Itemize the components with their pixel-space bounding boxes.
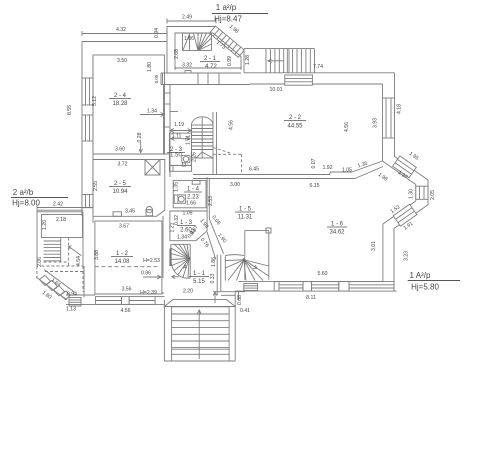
- dashed ceiling line 1-2: [95, 266, 160, 268]
- corridor diagonal walls: [207, 219, 224, 260]
- SW block inner wall to 1-2: [84, 216, 93, 298]
- spiral stair wall post: [169, 249, 171, 267]
- svg-text:1.73: 1.73: [215, 40, 227, 51]
- svg-text:4.56: 4.56: [120, 308, 130, 314]
- svg-text:1.80: 1.80: [41, 290, 53, 301]
- entry steps from terrace: [285, 75, 313, 85]
- terrace stair band top rail: [244, 48, 315, 50]
- stairwell rect: [245, 231, 269, 280]
- svg-text:3.67: 3.67: [119, 224, 129, 230]
- svg-text:2.06: 2.06: [37, 257, 43, 267]
- svg-text:Hj=5.80: Hj=5.80: [411, 283, 439, 292]
- dim line 3.32: [175, 66, 241, 70]
- chimney X box: [145, 160, 160, 176]
- hall south wall (1-4 1-5 top): [193, 172, 355, 179]
- terrace stair band right edge: [314, 49, 316, 73]
- wall 1-2 east outer: [162, 216, 164, 294]
- svg-text:0.94: 0.94: [154, 28, 160, 38]
- door arrow 1-2: [172, 275, 179, 279]
- wall south of 1-1 to porch: [213, 292, 245, 296]
- hall to bay diagonal wall: [352, 161, 383, 179]
- mullion S2: [339, 282, 349, 292]
- room label 2-3: [167, 147, 185, 159]
- svg-text:0.68: 0.68: [237, 295, 243, 305]
- room 2-5 box: [93, 160, 165, 217]
- toilet 2-3: [182, 155, 190, 166]
- vent box 1-4: [192, 180, 200, 184]
- south wall 1-6 band: [235, 282, 396, 292]
- svg-text:11.31: 11.31: [238, 215, 253, 221]
- svg-text:1.30: 1.30: [409, 189, 415, 199]
- svg-text:1.28: 1.28: [245, 55, 251, 65]
- svg-text:8.55: 8.55: [67, 105, 73, 115]
- U-stair central: [192, 117, 214, 158]
- svg-text:3.32: 3.32: [182, 63, 192, 69]
- svg-text:1.35: 1.35: [173, 182, 179, 192]
- svg-text:10.01: 10.01: [270, 87, 283, 93]
- stair fan 2-1 treads: [183, 33, 212, 50]
- stair tower outer wall: [167, 27, 216, 42]
- SW stair dashed flight: [37, 238, 83, 293]
- south wall 1-2 band: [66, 294, 164, 304]
- svg-text:3.93: 3.93: [373, 118, 379, 128]
- svg-text:1.80: 1.80: [147, 62, 153, 72]
- dim line 1.19: [170, 129, 192, 133]
- room label 1-4: [184, 187, 202, 201]
- svg-text:1.20: 1.20: [42, 220, 48, 230]
- wall east outer upper: [394, 73, 396, 157]
- room label 2-4: [109, 93, 131, 107]
- terrace stair treads: [266, 49, 310, 73]
- room label 1-6: [327, 222, 347, 236]
- room 1-2 box: [95, 221, 162, 294]
- svg-text:4.72: 4.72: [205, 64, 217, 70]
- window SW2: [129, 297, 155, 305]
- entry arrow small: [213, 292, 217, 303]
- dim texts horizontal: [53, 15, 352, 315]
- wall hall west pair: [164, 85, 171, 178]
- bay SE diagonal walls: [383, 201, 428, 229]
- svg-text:8.11: 8.11: [306, 295, 316, 301]
- room label 2-1: [200, 56, 220, 70]
- stair fan 2-1 box: [183, 33, 212, 50]
- dim line 0.28: [139, 142, 143, 153]
- svg-text:0.07: 0.07: [311, 158, 317, 168]
- svg-text:Hj=8.00: Hj=8.00: [12, 199, 40, 208]
- svg-text:0.76: 0.76: [199, 237, 210, 249]
- svg-text:3.56: 3.56: [121, 287, 131, 293]
- room 1-4 box: [173, 180, 206, 207]
- dashes beyond U-stair: [213, 148, 242, 176]
- svg-text:4.56: 4.56: [344, 122, 350, 132]
- SW stair landing box: [41, 215, 82, 238]
- svg-text:1.50: 1.50: [170, 153, 182, 159]
- mullion SW: [121, 297, 129, 305]
- wall 2-2 west pair: [213, 112, 217, 174]
- door symbol 2-5: [113, 212, 122, 217]
- svg-text:1 a²/p: 1 a²/p: [216, 3, 237, 12]
- svg-text:1.98: 1.98: [377, 172, 389, 183]
- porch landing trapezoid: [164, 300, 235, 307]
- porch right rail: [229, 291, 238, 361]
- wall 1-3/1-5 vertical: [207, 177, 209, 219]
- window S1: [279, 282, 303, 292]
- svg-text:2 a²/b: 2 a²/b: [13, 188, 34, 197]
- SW checker steps: [40, 275, 71, 299]
- svg-text:2.42: 2.42: [53, 202, 63, 208]
- bay NE diagonal walls: [383, 157, 429, 185]
- mullion S1: [303, 282, 312, 292]
- window W2: [82, 115, 93, 141]
- svg-text:6.15: 6.15: [309, 183, 319, 189]
- svg-text:4.54: 4.54: [76, 256, 82, 266]
- svg-text:1.19: 1.19: [174, 122, 184, 128]
- text 1 A2/p right: [408, 271, 460, 292]
- svg-text:3.72: 3.72: [117, 162, 127, 168]
- svg-text:2.05: 2.05: [430, 190, 436, 200]
- svg-text:3.00: 3.00: [230, 182, 240, 188]
- dim stub 1.34 right: [170, 111, 178, 113]
- svg-text:0.05: 0.05: [154, 74, 159, 83]
- room 2-1 outline: [175, 33, 241, 68]
- svg-text:44.55: 44.55: [287, 124, 303, 130]
- dim line 4.32: [82, 31, 167, 36]
- wall top 2-2 outer: [244, 72, 395, 74]
- text 2 a2/b left: [11, 188, 68, 208]
- svg-text:1.34: 1.34: [147, 109, 157, 115]
- svg-text:0.41: 0.41: [240, 308, 250, 314]
- svg-text:1.35: 1.35: [357, 161, 369, 170]
- dim line 2.49: [167, 19, 216, 24]
- terrace stair arrow: [268, 59, 284, 63]
- svg-text:H=2.39: H=2.39: [140, 290, 157, 296]
- wall east inner upper: [382, 84, 384, 161]
- room 1-3 polygon: [170, 211, 207, 241]
- window W1: [82, 78, 93, 105]
- svg-text:A: A: [183, 265, 187, 271]
- room label 1-2: [111, 251, 133, 265]
- text 1 a2/p top: [212, 3, 268, 24]
- svg-text:2.55: 2.55: [93, 181, 99, 191]
- dim line 0.86: [143, 275, 161, 279]
- svg-text:3.60: 3.60: [115, 147, 125, 153]
- exterior diagonal stair band: [209, 26, 244, 57]
- svg-text:1.05: 1.05: [182, 211, 192, 217]
- wall top 2-2 inner: [250, 83, 383, 85]
- svg-text:1 A²/p: 1 A²/p: [410, 271, 431, 280]
- SW diagonal entrance rails: [36, 270, 75, 301]
- SW stair block east wall: [82, 212, 84, 266]
- svg-text:1.66: 1.66: [186, 201, 196, 207]
- svg-text:0.28: 0.28: [137, 132, 143, 142]
- svg-text:4.18: 4.18: [397, 104, 403, 114]
- cylinder symbol 2-5: [146, 207, 153, 216]
- svg-text:3.88: 3.88: [94, 250, 100, 260]
- room label 1-1: [189, 271, 209, 285]
- window S2: [312, 282, 339, 292]
- svg-text:2.08: 2.08: [174, 49, 180, 59]
- SW stair treads: [44, 238, 61, 263]
- svg-text:2.26: 2.26: [192, 152, 198, 162]
- winder arrow: [249, 263, 257, 269]
- svg-text:2.49: 2.49: [182, 15, 192, 21]
- sink 1-4: [174, 195, 185, 203]
- svg-text:1.06: 1.06: [184, 36, 194, 42]
- svg-text:1.71: 1.71: [186, 135, 192, 145]
- wall 2-4/2-5 upper line: [93, 153, 171, 155]
- dim texts rotated: [37, 24, 436, 305]
- svg-text:1.92: 1.92: [322, 165, 332, 171]
- SW stair direction diagonal: [69, 246, 82, 256]
- svg-text:1.98: 1.98: [228, 24, 240, 35]
- svg-text:6.45: 6.45: [249, 167, 259, 173]
- svg-text:2.20: 2.20: [183, 289, 193, 295]
- porch treads: [164, 307, 235, 361]
- svg-text:4.56: 4.56: [229, 120, 235, 130]
- wall between 2-1 and landing: [243, 49, 245, 73]
- svg-text:2.53: 2.53: [208, 196, 214, 206]
- svg-text:2.18: 2.18: [56, 217, 66, 223]
- SW small steps: [69, 298, 81, 307]
- svg-text:0.86: 0.86: [141, 271, 151, 277]
- wall west of stairwell: [217, 255, 221, 296]
- window bay E: [416, 186, 428, 199]
- svg-text:1.98: 1.98: [198, 218, 209, 230]
- SW stair block west wall: [36, 210, 38, 266]
- svg-text:Hj=8.47: Hj=8.47: [214, 15, 242, 24]
- window SW1: [95, 297, 121, 305]
- room 2-3 box: [169, 133, 191, 165]
- svg-text:0.33: 0.33: [210, 273, 216, 283]
- svg-text:1.05: 1.05: [342, 168, 352, 174]
- wall west inner (room edge): [92, 55, 94, 213]
- window bay SE: [393, 204, 417, 226]
- door notch hall: [185, 71, 191, 74]
- svg-text:5.15: 5.15: [193, 279, 205, 285]
- basement window under stairwell: [244, 284, 258, 291]
- svg-text:3.50: 3.50: [117, 58, 127, 64]
- spiral stair 1-1: [171, 244, 191, 278]
- window bay NE: [393, 156, 417, 178]
- window E1: [383, 98, 395, 138]
- room 2-3 lower shelf: [169, 165, 191, 171]
- dim line 2.42: [37, 206, 93, 210]
- svg-text:3.23: 3.23: [404, 251, 410, 261]
- svg-text:1.11: 1.11: [172, 134, 182, 140]
- svg-text:3.01: 3.01: [371, 241, 377, 251]
- svg-text:0.32: 0.32: [174, 215, 180, 225]
- svg-text:1.95: 1.95: [408, 151, 420, 162]
- bay east walls: [416, 180, 428, 205]
- svg-text:3.45: 3.45: [125, 209, 135, 215]
- svg-text:34.62: 34.62: [329, 230, 345, 236]
- svg-text:0.94: 0.94: [67, 292, 77, 298]
- svg-text:1.86: 1.86: [211, 257, 217, 267]
- dim line 1.34: [140, 113, 165, 117]
- svg-text:1.13: 1.13: [66, 307, 76, 313]
- column marker: [266, 228, 271, 233]
- wall top-left outer: [82, 41, 167, 43]
- wall west outer: [81, 42, 83, 217]
- svg-text:14.08: 14.08: [114, 259, 130, 265]
- wall 2-1 south: [161, 73, 250, 85]
- room label 1-3: [177, 220, 195, 234]
- svg-text:7.74: 7.74: [313, 64, 323, 70]
- window S3: [349, 282, 394, 292]
- SW stair block top wall: [37, 210, 83, 212]
- room label 1-5: [235, 207, 255, 221]
- svg-text:18.28: 18.28: [112, 101, 128, 107]
- porch arrow: [197, 310, 201, 359]
- room 2-4 box: [93, 55, 165, 154]
- svg-text:0.99: 0.99: [227, 56, 233, 66]
- svg-text:4.32: 4.32: [116, 27, 126, 33]
- svg-text:1.90: 1.90: [216, 233, 227, 245]
- svg-text:H=2.53: H=2.53: [143, 258, 160, 264]
- winder stair bottom fan: [225, 255, 268, 281]
- room label 2-2: [284, 115, 306, 130]
- porch left rail: [164, 300, 171, 361]
- svg-text:5.12: 5.12: [92, 96, 98, 106]
- window W3: [82, 195, 93, 208]
- wall east lower: [383, 224, 394, 291]
- dim line 1.11: [171, 137, 190, 141]
- svg-text:10.94: 10.94: [112, 189, 128, 195]
- svg-text:5.60: 5.60: [317, 271, 327, 277]
- window S1 cap: [274, 282, 279, 292]
- room label 2-5: [109, 181, 131, 195]
